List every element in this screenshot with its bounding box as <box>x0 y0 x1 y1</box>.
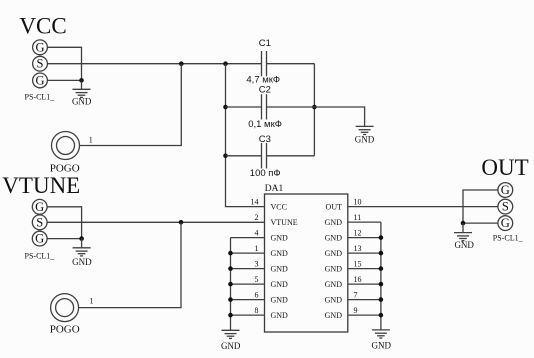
node OUT ground junction <box>461 221 466 226</box>
svg-text:GND: GND <box>271 280 289 289</box>
connector XS3 OUT (PS-CL1) pin S <box>498 199 513 214</box>
connector XS2 VTUNE (PS-CL1) pin G <box>32 199 47 214</box>
pin 4 stub <box>231 237 265 239</box>
pin 7 stub <box>348 299 381 301</box>
svg-text:8: 8 <box>255 306 259 315</box>
svg-text:12: 12 <box>354 229 362 238</box>
wire DA1 pin 10 to OUT connector <box>348 206 498 208</box>
svg-text:VCC: VCC <box>19 14 66 39</box>
wire right capacitor bus <box>313 64 315 156</box>
pin 6 stub <box>231 299 265 301</box>
wire POGO2 to VTUNE net <box>79 222 181 307</box>
svg-text:S: S <box>37 57 44 71</box>
node VTUNE ground junction <box>79 236 84 241</box>
node right bus pin12 <box>379 235 384 240</box>
svg-text:GND: GND <box>454 240 474 250</box>
wire OUT G3 to ground <box>463 222 498 224</box>
svg-text:C3: C3 <box>259 134 271 145</box>
svg-text:13: 13 <box>354 244 362 253</box>
svg-text:G: G <box>501 216 510 230</box>
svg-text:GND: GND <box>72 257 92 267</box>
svg-text:GND: GND <box>271 311 289 320</box>
node right bus / C2 / ground <box>312 105 317 110</box>
svg-text:G: G <box>35 73 44 87</box>
wire VCC G3 to ground <box>47 79 81 81</box>
svg-text:GND: GND <box>325 280 343 289</box>
ground GND (capacitors) <box>355 126 375 144</box>
svg-text:100 пФ: 100 пФ <box>250 168 281 179</box>
pin 12 stub <box>348 237 381 239</box>
pin 3 stub <box>231 268 265 270</box>
wire C2 right plate to right bus <box>267 106 315 108</box>
node right bus pin7 <box>379 297 384 302</box>
wire C1 right plate to right bus <box>267 63 315 65</box>
svg-text:PS-CL1_: PS-CL1_ <box>25 92 56 101</box>
wire C3 right plate to right bus <box>267 155 315 157</box>
svg-text:POGO: POGO <box>50 323 80 335</box>
svg-text:GND: GND <box>325 265 343 274</box>
svg-text:9: 9 <box>354 306 358 315</box>
svg-text:VTUNE: VTUNE <box>271 218 298 227</box>
connector XS3 OUT (PS-CL1) pin G <box>498 183 513 198</box>
svg-text:6: 6 <box>255 291 259 300</box>
svg-text:0,1 мкФ: 0,1 мкФ <box>248 119 282 130</box>
pin 15 stub <box>348 268 381 270</box>
connector XS3 OUT (PS-CL1) pin G <box>498 216 513 231</box>
node right bus pin13 <box>379 251 384 256</box>
capacitor C3 <box>262 143 267 168</box>
node VCC/POGO1 junction <box>179 61 184 66</box>
svg-text:OUT: OUT <box>326 203 343 212</box>
svg-text:GND: GND <box>325 218 343 227</box>
svg-text:PS-CL1_: PS-CL1_ <box>25 252 56 261</box>
ground GND (DA1 right) <box>372 330 392 351</box>
ground GND (OUT connector) <box>454 223 474 250</box>
svg-text:G: G <box>501 183 510 197</box>
wire C2 left plate to left bus <box>226 106 262 108</box>
wire VTUNE G1 to ground <box>47 207 82 239</box>
pin 13 stub <box>348 252 381 254</box>
node left bus pin8 <box>228 313 233 318</box>
svg-text:1: 1 <box>89 136 93 145</box>
capacitor C1 <box>262 51 267 76</box>
svg-text:1: 1 <box>90 297 94 306</box>
svg-text:GND: GND <box>325 311 343 320</box>
svg-text:1: 1 <box>255 244 259 253</box>
svg-text:GND: GND <box>325 296 343 305</box>
pin 5 stub <box>231 283 265 285</box>
capacitor C2 <box>262 94 267 119</box>
svg-text:G: G <box>35 200 44 214</box>
svg-text:C1: C1 <box>259 38 271 49</box>
svg-text:GND: GND <box>72 97 92 107</box>
node left bus pin5 <box>228 282 233 287</box>
node right bus pin16 <box>379 282 384 287</box>
connector XS2 VTUNE (PS-CL1) pin G <box>32 231 47 246</box>
svg-text:VCC: VCC <box>271 203 287 212</box>
connector XS1 VCC (PS-CL1) pin S <box>33 56 48 71</box>
connector XS1 VCC (PS-CL1) pin G <box>33 73 48 88</box>
svg-text:S: S <box>502 200 509 214</box>
svg-text:VTUNE: VTUNE <box>2 173 80 198</box>
wire right GND bus <box>380 222 382 330</box>
svg-text:PS-CL1_: PS-CL1_ <box>493 233 524 242</box>
svg-text:GND: GND <box>271 234 289 243</box>
svg-text:14: 14 <box>251 198 259 207</box>
wire POGO1 to VCC net <box>80 64 182 146</box>
svg-text:10: 10 <box>354 198 362 207</box>
pin 2 stub <box>231 221 265 223</box>
pogo pin XP2 <box>51 294 79 322</box>
connector XS1 VCC (PS-CL1) pin G <box>33 40 48 55</box>
node right bus pin15 <box>379 266 384 271</box>
ground GND (DA1 left) <box>221 330 241 351</box>
wire VCC G1 to ground <box>47 47 81 80</box>
pin 1 stub <box>231 252 265 254</box>
connector XS2 VTUNE (PS-CL1) pin S <box>32 215 47 230</box>
ground GND (VCC connector) <box>72 80 92 106</box>
svg-text:GND: GND <box>325 234 343 243</box>
wire VTUNE S net to DA1 pin 2 <box>47 221 264 223</box>
node right bus pin9 <box>379 313 384 318</box>
svg-text:15: 15 <box>354 260 362 269</box>
wire C2 node to ground <box>314 107 364 126</box>
svg-text:DA1: DA1 <box>265 184 284 194</box>
wire left GND bus <box>230 238 232 331</box>
wire OUT G1 to ground <box>463 190 498 223</box>
svg-text:4: 4 <box>255 229 259 238</box>
svg-text:11: 11 <box>354 213 362 222</box>
svg-text:GND: GND <box>271 296 289 305</box>
svg-text:GND: GND <box>271 249 289 258</box>
node left bus pin1 <box>228 251 233 256</box>
svg-text:GND: GND <box>355 134 375 144</box>
node left bus pin3 <box>228 266 233 271</box>
pogo pin XP1 <box>52 132 80 160</box>
node left bus / C3 <box>223 154 228 159</box>
op-amp / IC DA1 body <box>265 194 348 332</box>
pin 8 stub <box>231 314 265 316</box>
wire C3 left plate to left bus <box>226 155 262 157</box>
pin 9 stub <box>348 314 381 316</box>
svg-text:S: S <box>36 215 43 229</box>
svg-text:GND: GND <box>372 341 392 351</box>
node left bus pin6 <box>228 297 233 302</box>
node VTUNE/POGO2 junction <box>179 220 184 225</box>
svg-text:GND: GND <box>271 265 289 274</box>
svg-text:GND: GND <box>325 249 343 258</box>
node VCC/C1 bus junction <box>223 61 228 66</box>
node VCC ground junction <box>79 78 84 83</box>
svg-text:OUT: OUT <box>481 155 528 180</box>
pin 16 stub <box>348 283 381 285</box>
svg-text:16: 16 <box>354 275 362 284</box>
svg-text:C2: C2 <box>259 84 271 95</box>
svg-text:2: 2 <box>255 213 259 222</box>
wire VCC S net <box>47 63 261 65</box>
svg-text:3: 3 <box>255 260 259 269</box>
svg-text:7: 7 <box>354 291 358 300</box>
svg-text:GND: GND <box>221 341 241 351</box>
pin 11 stub <box>348 221 381 223</box>
wire VTUNE G3 to ground <box>47 238 82 240</box>
wire left capacitor bus to DA1 pin 14 <box>226 64 265 207</box>
ground GND (VTUNE connector) <box>72 239 92 267</box>
node left bus / C2 <box>223 105 228 110</box>
svg-text:5: 5 <box>255 275 259 284</box>
svg-text:G: G <box>35 232 44 246</box>
svg-text:G: G <box>35 40 44 54</box>
